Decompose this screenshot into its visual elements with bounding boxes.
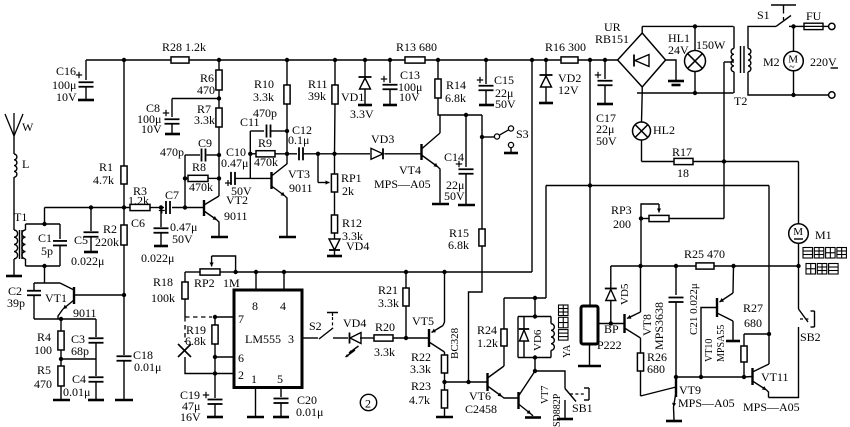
svg-text:50V: 50V — [444, 189, 465, 203]
transistor VT9 emitter — [674, 392, 677, 407]
bridge inner diode — [634, 55, 649, 67]
wire VD6 link — [534, 298, 536, 317]
svg-text:S2: S2 — [309, 319, 322, 333]
terminal C6 end — [154, 245, 168, 248]
transistor VT6 — [486, 373, 488, 391]
capacitor C8 — [163, 110, 169, 116]
label M1 text zidongduijiao — [803, 248, 813, 259]
wire M1 bottom — [798, 243, 800, 266]
resistor R9 — [256, 151, 275, 157]
wire HL2 top — [641, 93, 644, 122]
wire RF line c — [172, 207, 204, 209]
wire fb left col — [184, 155, 186, 208]
node VT10 base bus — [699, 375, 703, 379]
svg-text:R2: R2 — [103, 222, 117, 236]
ground bridge 2 — [672, 84, 681, 87]
diode VD4a — [329, 239, 340, 250]
transformer T2 core — [740, 46, 742, 73]
wire top supply bus 2 — [189, 59, 405, 61]
motor M2 — [784, 51, 804, 71]
svg-text:4: 4 — [280, 299, 286, 313]
wire C9 to node — [207, 154, 220, 156]
wire tank left bottom — [25, 259, 27, 266]
wire RP2 right — [220, 271, 236, 273]
node fb left — [183, 176, 187, 180]
resistor R1 — [121, 166, 127, 184]
svg-text:R17: R17 — [672, 145, 692, 159]
ground SB1 — [557, 418, 573, 421]
svg-text:3.3k: 3.3k — [374, 345, 395, 359]
svg-text:SB2: SB2 — [800, 330, 821, 344]
wire T2 secondary bottom — [748, 72, 829, 95]
svg-text:R25 470: R25 470 — [684, 247, 725, 261]
wire VT10 collector down — [732, 321, 734, 340]
ground VT9 — [666, 420, 682, 423]
switch S1 — [771, 5, 796, 9]
wire audio bus left — [611, 265, 696, 267]
wire R27 top — [743, 334, 745, 346]
node VD6 box top — [533, 314, 537, 318]
svg-text:R1: R1 — [99, 160, 113, 174]
wire C13 bottom — [389, 90, 391, 105]
node pin4 tap — [282, 270, 286, 274]
wire R1 column top — [123, 60, 125, 166]
svg-text:10V: 10V — [56, 90, 77, 104]
terminal VT10 end — [726, 340, 740, 343]
node VD6 top link — [533, 296, 537, 300]
node VT2 collector col — [217, 153, 221, 157]
ground VT7 — [525, 416, 541, 419]
svg-text:0.022μ: 0.022μ — [141, 251, 174, 265]
capacitor C1 plates — [53, 241, 67, 246]
svg-text:470p: 470p — [160, 145, 184, 159]
wire R10 bottom — [286, 104, 288, 164]
svg-text:680: 680 — [647, 362, 665, 376]
svg-text:0.01μ: 0.01μ — [63, 385, 90, 399]
wire VD2 bottom — [545, 87, 547, 102]
capacitor C20 plates — [274, 399, 289, 404]
resistor R3 — [130, 204, 150, 210]
resistor R4 — [58, 331, 64, 350]
node top bus junction — [217, 58, 221, 62]
pushbutton SB1 — [565, 388, 589, 402]
node VT3 coll col — [285, 152, 289, 156]
svg-text:8: 8 — [252, 299, 258, 313]
svg-text:M2: M2 — [763, 55, 780, 69]
wire R1 bottom — [123, 184, 125, 208]
ground VT3 — [279, 236, 296, 239]
transistor VT11 collector — [753, 364, 770, 372]
node top bus junction — [544, 58, 548, 62]
wire RP1 bottom — [334, 192, 336, 215]
wire VT8 collector down — [640, 338, 642, 353]
wire C8 link — [172, 98, 219, 100]
wire VT1 collector out — [74, 294, 124, 296]
svg-text:R16 300: R16 300 — [545, 40, 586, 54]
capacitor C15 — [477, 77, 483, 83]
wire C3 top — [95, 319, 97, 337]
svg-text:16V: 16V — [180, 410, 201, 424]
svg-text:C2458: C2458 — [465, 402, 497, 416]
wire R19 bottom — [214, 344, 216, 357]
wire R4 top — [60, 319, 62, 331]
svg-text:7: 7 — [238, 312, 244, 326]
transistor VT6 emitter — [488, 386, 503, 397]
svg-text:VT6: VT6 — [469, 389, 491, 403]
wire C18 bottom — [123, 361, 125, 399]
wire top supply bus 3 — [425, 59, 561, 61]
capacitor C17 — [595, 72, 601, 78]
wire bus to VD5 — [610, 266, 612, 288]
svg-text:MPSA55: MPSA55 — [716, 325, 727, 362]
resistor R7 — [216, 108, 222, 127]
transistor VT2 emitter — [204, 211, 217, 220]
wire tank right bottom — [59, 246, 61, 266]
terminal C14 end — [458, 204, 475, 207]
LED VD4b arrows — [349, 346, 359, 353]
antenna W — [5, 113, 23, 136]
wire C14 bottom — [465, 174, 467, 204]
resistor R21 — [403, 288, 409, 306]
wire M2 bottom — [793, 71, 795, 95]
svg-text:50V: 50V — [596, 134, 617, 148]
node VT9 top — [674, 375, 678, 379]
transistor VT3 emitter — [272, 186, 286, 196]
resistor R2 — [121, 225, 127, 245]
node tank top — [42, 222, 46, 226]
wire C8 bottom — [171, 124, 173, 133]
label circled 2 — [360, 394, 376, 410]
resistor R25 — [696, 263, 714, 269]
svg-text:R20: R20 — [375, 320, 395, 334]
wire RP3 to bus — [640, 219, 642, 267]
wire R19 to C19 — [214, 357, 216, 398]
wire C13 top — [389, 60, 391, 83]
lamp HL1 — [685, 51, 706, 72]
svg-text:6: 6 — [238, 351, 244, 365]
capacitor C12 plates — [299, 147, 303, 160]
wire RP1 top — [334, 154, 336, 175]
transistor VT10 collector — [717, 313, 733, 321]
svg-text:R4: R4 — [37, 330, 51, 344]
svg-text:VT1: VT1 — [45, 291, 67, 305]
svg-text:MPS—A05: MPS—A05 — [743, 400, 800, 414]
wire T2 secondary top — [748, 26, 776, 48]
svg-text:0.1μ: 0.1μ — [288, 133, 309, 147]
svg-text:RP2: RP2 — [194, 276, 215, 290]
transistor VT3 collector — [272, 164, 288, 176]
svg-text:W: W — [22, 120, 34, 134]
svg-text:2: 2 — [238, 368, 244, 382]
transistor VT3 — [270, 172, 272, 189]
ground R5 — [53, 399, 70, 402]
potentiometer RP2 wiper — [212, 256, 236, 272]
wire RF line b — [150, 207, 164, 209]
capacitor C9 plates — [202, 149, 206, 162]
capacitor C16 — [76, 72, 82, 78]
svg-text:0.47μ: 0.47μ — [221, 156, 248, 170]
wire VT10 emitter up — [732, 266, 735, 293]
wire R11 top — [334, 60, 336, 85]
node C11 right — [285, 129, 289, 133]
wire VD2 top — [545, 60, 547, 75]
wire antenna to L — [13, 136, 15, 154]
node R11-RP1 col — [332, 152, 336, 156]
svg-text:S1: S1 — [757, 8, 770, 22]
wire VD1 top — [364, 60, 366, 77]
potentiometer RP2 — [200, 269, 220, 275]
node S3 tap — [480, 135, 484, 139]
svg-text:1: 1 — [251, 372, 257, 386]
node HL1 bottom — [693, 91, 697, 95]
solenoid YA coil — [551, 324, 554, 351]
capacitor C7 — [159, 208, 165, 214]
wire S1 to FU — [789, 25, 804, 27]
wire VD4b out — [360, 337, 374, 339]
wire C21 top — [675, 266, 677, 295]
node VT10 emitter bus — [731, 264, 735, 268]
transistor VT1 — [34, 283, 74, 304]
node VT8 emitter bus — [638, 264, 642, 268]
node C5 tap — [89, 205, 93, 209]
svg-text:R13 680: R13 680 — [396, 40, 437, 54]
svg-text:R18: R18 — [153, 275, 173, 289]
transistor VT6 collector — [488, 366, 505, 378]
resistor R28 — [171, 57, 189, 63]
ground BP — [578, 365, 601, 368]
svg-text:R9: R9 — [258, 136, 272, 150]
transistor VT10 — [716, 298, 718, 317]
motor M1 underline — [794, 238, 803, 240]
wire VT2 emitter — [217, 220, 219, 236]
wire FU to terminal — [823, 25, 829, 27]
wire C19 bottom — [214, 405, 216, 417]
resistor R17 — [674, 158, 693, 164]
svg-text:3.3k: 3.3k — [194, 113, 215, 127]
node RP1 wiper tap — [316, 152, 320, 156]
wire pin3 — [302, 337, 318, 339]
wire R21 col — [405, 272, 407, 288]
node top bus junction — [530, 58, 534, 62]
wire M1 top — [798, 162, 800, 225]
wire audio bus right — [714, 265, 799, 267]
wire VT4 emitter — [438, 167, 440, 203]
wire RF line — [45, 207, 131, 209]
capacitor C19 — [203, 392, 209, 398]
inductor L — [14, 154, 17, 177]
wire C15 bottom — [485, 91, 487, 105]
ground C18 — [115, 399, 133, 402]
wire VT11 emitter — [767, 390, 769, 398]
wire C16 bottom — [85, 87, 87, 99]
potentiometer RP1 wiper — [317, 154, 319, 183]
wire C5 bottom — [90, 237, 92, 251]
wire C12 out — [304, 153, 371, 155]
resistor R23 — [441, 390, 447, 408]
transistor VT2 collector — [204, 196, 219, 205]
svg-text:VT9: VT9 — [679, 383, 701, 397]
wire RP3 left — [641, 218, 649, 220]
resistor R27 — [741, 346, 747, 362]
ground C19 — [207, 416, 223, 419]
svg-text:4.7k: 4.7k — [409, 393, 430, 407]
capacitor C4 plates — [89, 377, 104, 382]
wire RP2 left — [185, 271, 200, 273]
wire VT6 base rail — [445, 381, 488, 383]
wire R8 left — [185, 177, 188, 179]
ground VT2 — [211, 236, 228, 239]
wire pin2 — [215, 373, 234, 375]
node C21 bus — [674, 264, 678, 268]
node R21 top — [404, 270, 408, 274]
wire mid rail — [546, 185, 769, 187]
switch S1 arm — [776, 16, 791, 27]
diode VD5 — [605, 289, 617, 301]
capacitor C13 — [381, 76, 387, 82]
capacitor C19 plates — [208, 400, 223, 405]
capacitor C13 plates — [383, 85, 398, 90]
wire R5 bottom — [60, 386, 62, 399]
wire SB2 upper — [798, 266, 800, 309]
capacitor C10 — [225, 180, 231, 186]
transistor VT10 emitter — [720, 293, 734, 302]
svg-text:S3: S3 — [516, 127, 529, 141]
transistor VT7 emitter — [519, 404, 532, 414]
svg-text:9011: 9011 — [289, 181, 313, 195]
wire R9 out — [275, 153, 297, 155]
svg-text:39k: 39k — [308, 89, 326, 103]
bridge rectifier UR RB151 — [618, 33, 666, 87]
resistor R13 — [405, 57, 425, 63]
transistor VT5 emitter — [432, 326, 444, 333]
node pin8 tap — [254, 270, 258, 274]
wire VT8 emitter up — [640, 266, 642, 312]
transistor VT5 collector — [429, 342, 445, 352]
wire BP top — [589, 306, 591, 307]
resistor R26 — [637, 353, 643, 371]
svg-text:RP3: RP3 — [611, 203, 632, 217]
svg-text:R28 1.2k: R28 1.2k — [162, 40, 206, 54]
svg-text:VD5: VD5 — [619, 283, 631, 305]
node pin6 — [213, 355, 217, 359]
node top bus junction — [285, 58, 289, 62]
potentiometer RP1 — [331, 174, 337, 192]
op-amp U1 LM555 — [234, 290, 302, 388]
svg-text:680: 680 — [744, 316, 762, 330]
node pin2 — [213, 371, 217, 375]
resistor R15 — [479, 229, 485, 246]
svg-text:LM555: LM555 — [245, 332, 281, 346]
wire R4 bottom — [60, 350, 62, 366]
wire R12 to VD4 — [334, 233, 336, 239]
svg-text:4.7k: 4.7k — [93, 173, 114, 187]
capacitor C6 plates — [154, 228, 169, 233]
node M2 bottom — [791, 93, 795, 97]
capacitor C14 — [456, 161, 462, 167]
transistor VT2 — [203, 200, 205, 216]
ground R23 — [436, 416, 453, 419]
wire C17 top — [604, 60, 606, 79]
svg-text:R23: R23 — [411, 379, 431, 393]
node C8 tap — [217, 96, 221, 100]
svg-text:T1: T1 — [14, 210, 27, 224]
wire bottom DC rail — [637, 92, 734, 94]
transistor VT5 — [428, 329, 430, 347]
resistor R19 — [212, 325, 218, 344]
wire C6 top — [160, 208, 162, 228]
svg-text:39p: 39p — [7, 296, 25, 310]
wire C4 top — [95, 359, 97, 376]
capacitor C11 plates — [267, 125, 271, 138]
transistor VT8 emitter — [627, 312, 641, 319]
svg-text:470k: 470k — [254, 155, 278, 169]
wire VT6 emitter — [502, 397, 519, 399]
svg-text:T2: T2 — [734, 94, 747, 108]
wire R11 bottom — [334, 104, 337, 154]
node top bus junction — [333, 58, 337, 62]
node R1-R2 tap — [122, 205, 126, 209]
svg-text:R10: R10 — [254, 77, 274, 91]
wire C2 top — [33, 283, 35, 291]
svg-text:VT10: VT10 — [704, 339, 715, 362]
ground pin1 — [247, 416, 264, 419]
node VT7 collector — [533, 369, 537, 373]
svg-text:6.8k: 6.8k — [185, 334, 206, 348]
node VD6 box bottom — [533, 355, 537, 359]
svg-text:C1: C1 — [38, 231, 52, 245]
capacitor C14 plates — [459, 169, 474, 174]
wire R14 top — [437, 60, 439, 79]
wire C3 bottom — [95, 343, 97, 359]
wire T2 tap down — [723, 62, 725, 219]
svg-text:VD6: VD6 — [532, 329, 544, 351]
node VT11 base bus — [742, 375, 746, 379]
transistor VT4 collector — [422, 133, 441, 149]
capacitor C10 plates — [231, 172, 235, 185]
resistor R18 — [182, 282, 188, 299]
ground C20 — [273, 416, 289, 419]
svg-text:R14: R14 — [446, 78, 466, 92]
wire VT3 emitter — [285, 196, 287, 236]
node top bus junction — [603, 58, 607, 62]
wire R26 to VT9 base — [641, 387, 677, 396]
svg-text:C16: C16 — [56, 64, 76, 78]
svg-text:3.3k: 3.3k — [410, 362, 431, 376]
wire VT7 emitter — [531, 414, 533, 416]
wire HL1 bottom — [694, 72, 696, 94]
buzzer BP P222 — [581, 306, 598, 344]
svg-text:220V: 220V — [810, 55, 837, 69]
svg-text:470: 470 — [34, 377, 52, 391]
wire emitter rail — [34, 318, 96, 320]
wire VT11 base — [744, 376, 753, 379]
capacitor C21 plates — [669, 298, 684, 303]
wire X to pin2 — [185, 357, 215, 374]
resistor R6 — [216, 70, 222, 90]
wire C17 bottom — [604, 86, 606, 104]
wire C20 bottom — [280, 404, 282, 417]
potentiometer RP3 — [649, 215, 669, 221]
node VT2 base — [183, 205, 187, 209]
wire tank bottom — [26, 265, 61, 267]
svg-text:FU: FU — [806, 9, 822, 23]
terminal VD4a end — [327, 255, 342, 258]
dashed link R18 to pin7 — [185, 316, 212, 318]
wire HL1 top — [694, 26, 696, 50]
svg-text:C7: C7 — [165, 188, 179, 202]
svg-text:470p: 470p — [253, 106, 277, 120]
wire R24 top — [503, 298, 505, 329]
